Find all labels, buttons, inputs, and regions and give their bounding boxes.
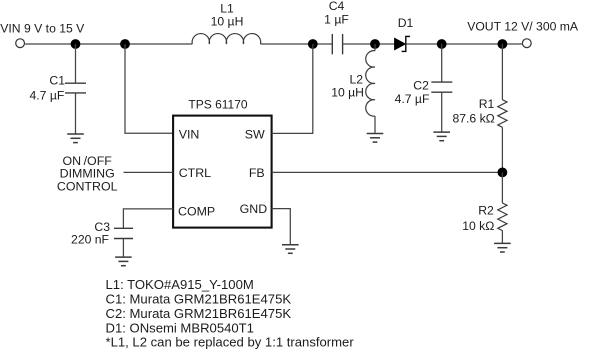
wire C2 to ground [441,92,443,132]
ground (L2) [367,134,384,143]
svg-text:VOUT 12 V/ 300 mA: VOUT 12 V/ 300 mA [467,19,579,33]
svg-text:VIN 9 V to 15 V: VIN 9 V to 15 V [0,22,85,36]
wire D1 to VOUT terminal [406,43,522,45]
wire C1 branch [75,44,77,83]
node junction C2 [437,39,447,49]
wire L1 to C4 [261,43,333,45]
node junction R1 [498,39,508,49]
inductor L2 [366,44,375,134]
node VOUT terminal [522,39,531,48]
resistor R2 [498,203,507,231]
wire CTRL input [124,171,174,173]
svg-text:220 nF: 220 nF [71,232,109,246]
wire R2 bottom [501,231,503,244]
wire C4 to D1 [343,43,395,45]
ground (C3) [115,257,132,266]
svg-text:L1: TOKO#A915_Y-100M: L1: TOKO#A915_Y-100M [106,277,254,292]
svg-text:C1: C1 [49,74,65,88]
inductor L1 [192,34,261,44]
wire FB to divider [272,171,503,173]
wire VIN pin branch [125,44,173,133]
svg-text:10 µH: 10 µH [331,86,364,100]
wire top rail: terminal to L1 [25,43,192,45]
wire R1 top [501,44,503,100]
ground (C2) [433,132,450,141]
svg-text:R1: R1 [479,97,495,111]
svg-text:1 µF: 1 µF [324,13,349,27]
wire COMP to C3 [123,209,173,228]
ground (R2) [494,243,511,252]
svg-text:87.6 kΩ: 87.6 kΩ [452,112,494,126]
svg-text:GND: GND [240,202,268,216]
svg-text:SW: SW [245,128,265,142]
resistor R1 [498,100,507,128]
svg-text:R2: R2 [478,203,494,217]
svg-text:4.7 µF: 4.7 µF [395,92,430,106]
svg-text:CTRL: CTRL [179,166,211,180]
svg-text:L1: L1 [220,2,234,16]
svg-text:TPS 61170: TPS 61170 [188,98,247,112]
capacitor C2 [431,82,452,92]
IC U1 TPS 61170 body [173,116,272,228]
svg-text:L2: L2 [349,73,363,87]
svg-text:FB: FB [249,166,265,180]
svg-text:VIN: VIN [179,128,200,142]
node junction C1 [71,39,81,49]
node junction VIN-branch [120,39,130,49]
wire SW pin to top rail [272,44,313,133]
svg-text:4.7 µF: 4.7 µF [30,88,65,102]
wire R2 top [501,172,503,203]
wire C1 to ground [75,93,77,134]
svg-text:D1: ONsemi MBR0540T1: D1: ONsemi MBR0540T1 [106,321,254,336]
svg-text:10 kΩ: 10 kΩ [462,219,494,233]
svg-text:*L1, L2 can be replaced by 1:1: *L1, L2 can be replaced by 1:1 transform… [106,335,355,349]
diode D1 (Schottky) [395,36,410,51]
ground (GND pin) [282,245,299,254]
node VIN input terminal [16,39,25,48]
svg-text:10 µH: 10 µH [211,14,244,28]
node junction FB [498,168,508,178]
svg-text:C4: C4 [329,0,345,13]
wire GND pin to ground [272,209,291,245]
ground (C1) [67,134,84,143]
capacitor C1 [65,83,86,93]
svg-text:C2: Murata GRM21BR61E475K: C2: Murata GRM21BR61E475K [106,306,292,321]
capacitor C3 [114,228,133,238]
wire C2 branch [441,44,443,82]
wire R1 bottom [501,127,503,172]
svg-text:COMP: COMP [178,204,215,218]
svg-text:C1: Murata GRM21BR61E475K: C1: Murata GRM21BR61E475K [106,291,292,306]
node junction SW [308,39,318,49]
node junction L2 [370,39,380,49]
svg-text:D1: D1 [398,16,414,30]
wire C3 to ground [122,239,124,258]
svg-text:C2: C2 [413,79,429,93]
capacitor C4 [332,34,342,54]
svg-text:CONTROL: CONTROL [57,179,118,193]
